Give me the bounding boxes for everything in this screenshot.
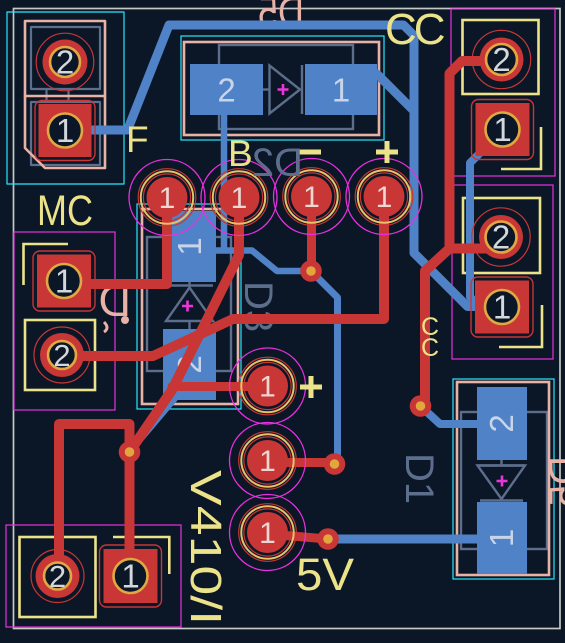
D3 B.SilkS outline bbox=[142, 209, 238, 404]
svg-text:V410/I: V410/I bbox=[181, 470, 230, 625]
MC pad2 silk square bbox=[25, 320, 95, 390]
svg-text:2: 2 bbox=[492, 219, 510, 256]
wire B.Cu: via(129.5,452) -> D3.2 bbox=[130, 388, 185, 453]
svg-text:1: 1 bbox=[56, 112, 74, 149]
MC F.Courtyard bbox=[14, 232, 115, 410]
via (334.5,464) bbox=[324, 453, 346, 475]
svg-text:1: 1 bbox=[332, 72, 350, 109]
pad TP B "1" bbox=[201, 160, 277, 236]
pad J1.1 (top-left square) bbox=[35, 101, 95, 161]
pad D5.2 bbox=[190, 64, 263, 115]
svg-text:1: 1 bbox=[493, 111, 511, 148]
J1 B.SilkS outline bbox=[25, 21, 105, 168]
wire B.Cu: J1.1 -> top -> right side -> RM.1 bbox=[65, 25, 500, 307]
pad CC.1 (square) bbox=[472, 100, 534, 160]
D3 plus mark bbox=[182, 301, 193, 312]
pad TP C "1" bbox=[274, 159, 350, 235]
svg-text:1: 1 bbox=[259, 445, 276, 478]
CC pad2 silk square bbox=[463, 20, 539, 94]
pad RM.2 (circle) bbox=[472, 208, 530, 266]
svg-text:1: 1 bbox=[483, 529, 520, 547]
svg-text:D1: D1 bbox=[397, 453, 441, 504]
svg-text:5V: 5V bbox=[296, 549, 354, 600]
D5 B.Fab outline bbox=[219, 45, 353, 129]
svg-text:B: B bbox=[228, 133, 253, 174]
svg-text:2: 2 bbox=[217, 72, 235, 109]
pad MC.2 (circle) bbox=[34, 327, 90, 383]
svg-text:1: 1 bbox=[493, 289, 511, 326]
label plus (column pad1) bbox=[300, 376, 322, 398]
RM pad1 silk corner bbox=[499, 305, 542, 347]
wire F.Cu: pad D -> MC.2 bbox=[62, 197, 384, 356]
RM pad2 silk square bbox=[463, 198, 540, 273]
pad D3.1 bbox=[163, 211, 216, 282]
svg-text:1: 1 bbox=[376, 181, 393, 214]
svg-text:2: 2 bbox=[492, 41, 510, 78]
svg-text:1: 1 bbox=[171, 237, 208, 255]
CC pad1 silk corner bbox=[501, 127, 541, 169]
pad J1.2 (top-left circle) bbox=[36, 33, 94, 91]
D5 diode symbol bbox=[263, 88, 270, 90]
svg-text:1: 1 bbox=[303, 181, 320, 214]
D5 plus mark bbox=[278, 84, 289, 95]
svg-text:1: 1 bbox=[231, 182, 248, 215]
MC pad1 silk corner bbox=[24, 244, 69, 285]
via (328,539) bbox=[317, 528, 339, 550]
blue pad numbers bbox=[171, 72, 520, 548]
D3 diode symbol bbox=[188, 282, 190, 286]
pad D1.2 bbox=[477, 387, 527, 460]
D1 B.SilkS outline bbox=[457, 382, 549, 575]
RM F.Courtyard bbox=[452, 185, 553, 359]
svg-text:1: 1 bbox=[259, 371, 276, 404]
label minus (above pad C) bbox=[299, 150, 321, 155]
D5 B.SilkS outline bbox=[184, 42, 379, 135]
via (311,271) bbox=[300, 260, 322, 282]
pad TP D "1" bbox=[346, 159, 422, 235]
wire F.Cu: pad B -> via(129.5,452) bbox=[130, 198, 240, 452]
pad BL.1 (square) bbox=[100, 545, 162, 607]
wire F.Cu: RM.2 branch bbox=[450, 244, 501, 254]
svg-text:D5: D5 bbox=[258, 0, 304, 37]
wire F.Cu: pad C -> via(311,271) bbox=[307, 197, 316, 271]
wire B.Cu: D5.1 branch to right vertical bbox=[352, 74, 412, 109]
D1 diode symbol bbox=[500, 460, 502, 466]
D3 B.Courtyard bbox=[137, 204, 241, 409]
svg-text:2: 2 bbox=[53, 338, 70, 373]
wire F.Cu: BL.2 -> BL.1 through via branch bbox=[59, 424, 130, 576]
svg-text:CC: CC bbox=[385, 5, 445, 54]
pad D1.1 bbox=[477, 502, 527, 574]
J1 B.Courtyard bbox=[7, 12, 124, 184]
svg-text:MC: MC bbox=[37, 187, 93, 235]
wire F.Cu: column pad2 -> via(334.5,464) bbox=[268, 458, 335, 467]
wire F.Cu: CC.2 -> via(420.5,406) bbox=[421, 61, 503, 406]
svg-text:2: 2 bbox=[483, 414, 520, 432]
svg-text:D3: D3 bbox=[236, 281, 280, 332]
svg-text:D5: D5 bbox=[542, 456, 565, 507]
wire B.Cu: via(311,271) -> via(334.5,464) bbox=[311, 271, 338, 464]
via (420.5,406) bbox=[410, 395, 432, 417]
wire F.Cu: pad A -> MC.1 bbox=[64, 198, 167, 284]
wire B.Cu: via(328,539) -> D1.1 (5V) bbox=[328, 535, 500, 544]
svg-text:1: 1 bbox=[259, 517, 276, 550]
D1 plus mark bbox=[497, 476, 508, 487]
via (129.5,452) bbox=[119, 441, 141, 463]
label plus (above pad D) bbox=[376, 141, 398, 163]
wire B.Cu: via(420.5,406) -> D1.2 bbox=[421, 406, 501, 424]
wire B.Cu: via(311,271) -> D3.1 and D5.2 bbox=[189, 251, 311, 272]
pad D3.2 bbox=[163, 329, 216, 400]
pad TP A "1" bbox=[129, 160, 205, 236]
svg-text:1: 1 bbox=[159, 182, 176, 215]
svg-text:1: 1 bbox=[121, 558, 139, 595]
svg-text:D2: D2 bbox=[252, 141, 303, 185]
svg-text:C: C bbox=[421, 334, 439, 362]
wire B.Cu: CC.1 down to RM.1 bbox=[470, 132, 501, 307]
J1 B.Fab outline bbox=[31, 27, 100, 165]
D5 B.Courtyard bbox=[181, 36, 384, 140]
pad RM.1 (square) bbox=[471, 277, 533, 337]
svg-text:1: 1 bbox=[55, 263, 73, 300]
pad column P1 "1" bbox=[230, 348, 306, 424]
pad column P3 "1" bbox=[230, 495, 306, 571]
wire F.Cu: column pad1 stub bbox=[172, 382, 268, 391]
BL F.Courtyard bbox=[6, 525, 181, 627]
pad D5.1 bbox=[305, 64, 377, 115]
pad CC.2 (circle) bbox=[472, 30, 530, 88]
pad MC.1 (square) bbox=[33, 251, 95, 311]
wire B.Cu: D5.2 branch up bbox=[221, 85, 228, 250]
BL pad2 silk square bbox=[20, 537, 96, 617]
D1 B.Courtyard bbox=[453, 379, 554, 579]
svg-text:2: 2 bbox=[49, 559, 66, 594]
D3 B.Fab outline bbox=[147, 237, 231, 371]
D1 B.Fab outline bbox=[461, 412, 547, 549]
svg-text:F: F bbox=[126, 119, 149, 160]
pad BL.2 (circle) bbox=[31, 550, 84, 603]
CC F.Courtyard bbox=[451, 9, 555, 176]
wire F.Cu: column pad3 -> via(328,539) bbox=[268, 534, 329, 539]
svg-text:2: 2 bbox=[56, 44, 74, 81]
pad column P2 "1" bbox=[230, 423, 306, 499]
BL pad1 silk corner bbox=[113, 537, 169, 574]
